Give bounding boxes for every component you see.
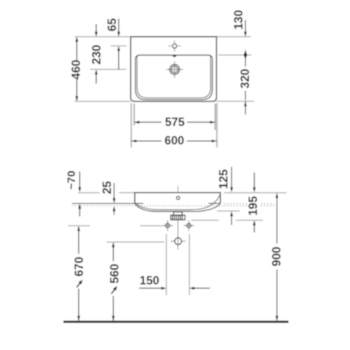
dimension ~70 lower outside arrow <box>79 208 81 216</box>
dimension 320 lower outside tail <box>244 101 246 114</box>
extension line: rear edge right <box>217 36 251 38</box>
drain centerline cross <box>166 68 183 70</box>
svg-text:900: 900 <box>270 246 284 266</box>
right fixing hole <box>187 224 191 228</box>
washbasin elevation: bowl underside outer curve <box>135 203 220 211</box>
dimension 195 label mask <box>248 195 260 217</box>
dimension 320 line <box>244 60 246 67</box>
extension line: fixing holes down right <box>188 234 190 295</box>
svg-text:195: 195 <box>246 196 260 216</box>
dimension 900 line <box>276 194 278 244</box>
extension line: bowl rear edge right <box>218 54 251 56</box>
extension line: 575 right vertical <box>214 104 216 131</box>
svg-text:130: 130 <box>231 10 245 30</box>
svg-text:600: 600 <box>165 134 185 148</box>
dimension 195 upper outside arrow <box>253 173 255 188</box>
washbasin plan view: outer ceramic rectangle 600x460 <box>131 37 217 102</box>
svg-text:575: 575 <box>165 115 185 129</box>
arrow pair at bowl rear edge level (130/320 shared) <box>244 50 246 59</box>
dimension 25 upper outside arrow <box>113 183 115 199</box>
mounting level solid line <box>72 203 135 205</box>
right fixing hole crosshair <box>184 225 195 227</box>
washbasin elevation: rim band rectangle <box>135 193 221 204</box>
svg-text:670: 670 <box>72 256 86 276</box>
rim underside visible side segments <box>135 202 144 204</box>
overflow notch at rear bowl edge <box>173 55 177 57</box>
dimension ~70 upper outside arrow <box>79 172 81 188</box>
extension line: 600 left vertical <box>130 103 132 147</box>
drain tailpiece with knurl <box>174 212 183 215</box>
dimension 460 line <box>76 38 78 60</box>
tap hole on deck (elevation) <box>177 196 180 199</box>
dimension 65 upper outside arrow <box>118 19 120 33</box>
svg-text:460: 460 <box>69 59 83 79</box>
tap hole crosshair ticks <box>169 45 172 47</box>
svg-text:25: 25 <box>100 181 114 195</box>
extension line: bowl bottom right (125) <box>217 210 240 212</box>
svg-text:65: 65 <box>105 18 119 32</box>
dimension 560 oblique mark <box>111 290 114 294</box>
dimension 150 right outside arrow <box>194 287 210 289</box>
mounting level dashed line right <box>224 203 274 205</box>
extension line: rear edge left <box>75 36 131 38</box>
level line: rim top left segment a <box>78 192 100 194</box>
left fixing hole <box>166 224 170 228</box>
dimension 195 lower outside arrow <box>253 225 255 233</box>
dimension 230 lower outside arrow <box>95 74 97 84</box>
extension line: front edge right <box>217 100 254 102</box>
floor line <box>63 321 288 323</box>
extension line: siphon level left (560) <box>107 241 165 243</box>
extension line: 600 right vertical <box>216 103 218 147</box>
dimension 65 lower outside arrow <box>118 51 120 70</box>
drain outer circle (plan) <box>170 65 180 75</box>
extension line: tap hole center left <box>111 45 127 47</box>
washbasin elevation: bowl inner curve <box>136 195 220 210</box>
extension line: fixing level right (195) a <box>191 219 218 221</box>
siphon crosshair horizontal ticks <box>171 240 174 242</box>
dimension 130 outside arrow <box>244 20 246 32</box>
dimension 125 upper outside arrow <box>231 167 233 188</box>
dimension 560 line <box>112 243 114 261</box>
dimension 575 line <box>134 121 161 123</box>
svg-text:560: 560 <box>107 263 121 283</box>
svg-text:230: 230 <box>89 44 103 64</box>
dimension 25 lower outside arrow <box>113 211 115 215</box>
extension line: 575 left vertical <box>133 104 135 126</box>
svg-text:150: 150 <box>140 273 160 287</box>
dimension 670 oblique mark <box>77 283 80 287</box>
dimension 150 left outside arrow <box>139 287 162 289</box>
washbasin plan: inner bowl contour (second line) <box>137 55 211 98</box>
extension line: drain center left <box>90 68 126 70</box>
dimension 670 line <box>78 227 80 254</box>
svg-text:320: 320 <box>238 68 252 88</box>
dimension 600 line <box>131 140 161 142</box>
level line: rim top right <box>224 192 287 194</box>
tap hole circle (plan) <box>173 44 177 48</box>
washbasin plan: inner bowl rim (outer contour) <box>135 55 212 100</box>
left fixing hole crosshair <box>162 225 173 227</box>
level line: rim top left segment b <box>119 192 135 194</box>
dimension 230 upper outside arrow <box>95 24 97 32</box>
drain inner circle (plan) <box>171 66 177 72</box>
extension line: fixing level right (195) b <box>236 219 263 221</box>
extension line: front edge left <box>75 100 131 102</box>
svg-text:~70: ~70 <box>66 171 78 190</box>
siphon outlet circle <box>175 238 182 245</box>
dimension 125 lower outside arrow <box>231 216 233 225</box>
svg-text:125: 125 <box>217 169 231 189</box>
centerline stub above rim <box>177 186 179 193</box>
extension line: fixing holes down left <box>165 234 167 295</box>
extension line: fixing hole level left (670) a <box>68 225 90 227</box>
wall fixing dotted line <box>72 205 274 207</box>
center vertical line below trap <box>177 220 179 250</box>
extension line: fixing hole level left (670) b <box>140 225 162 227</box>
